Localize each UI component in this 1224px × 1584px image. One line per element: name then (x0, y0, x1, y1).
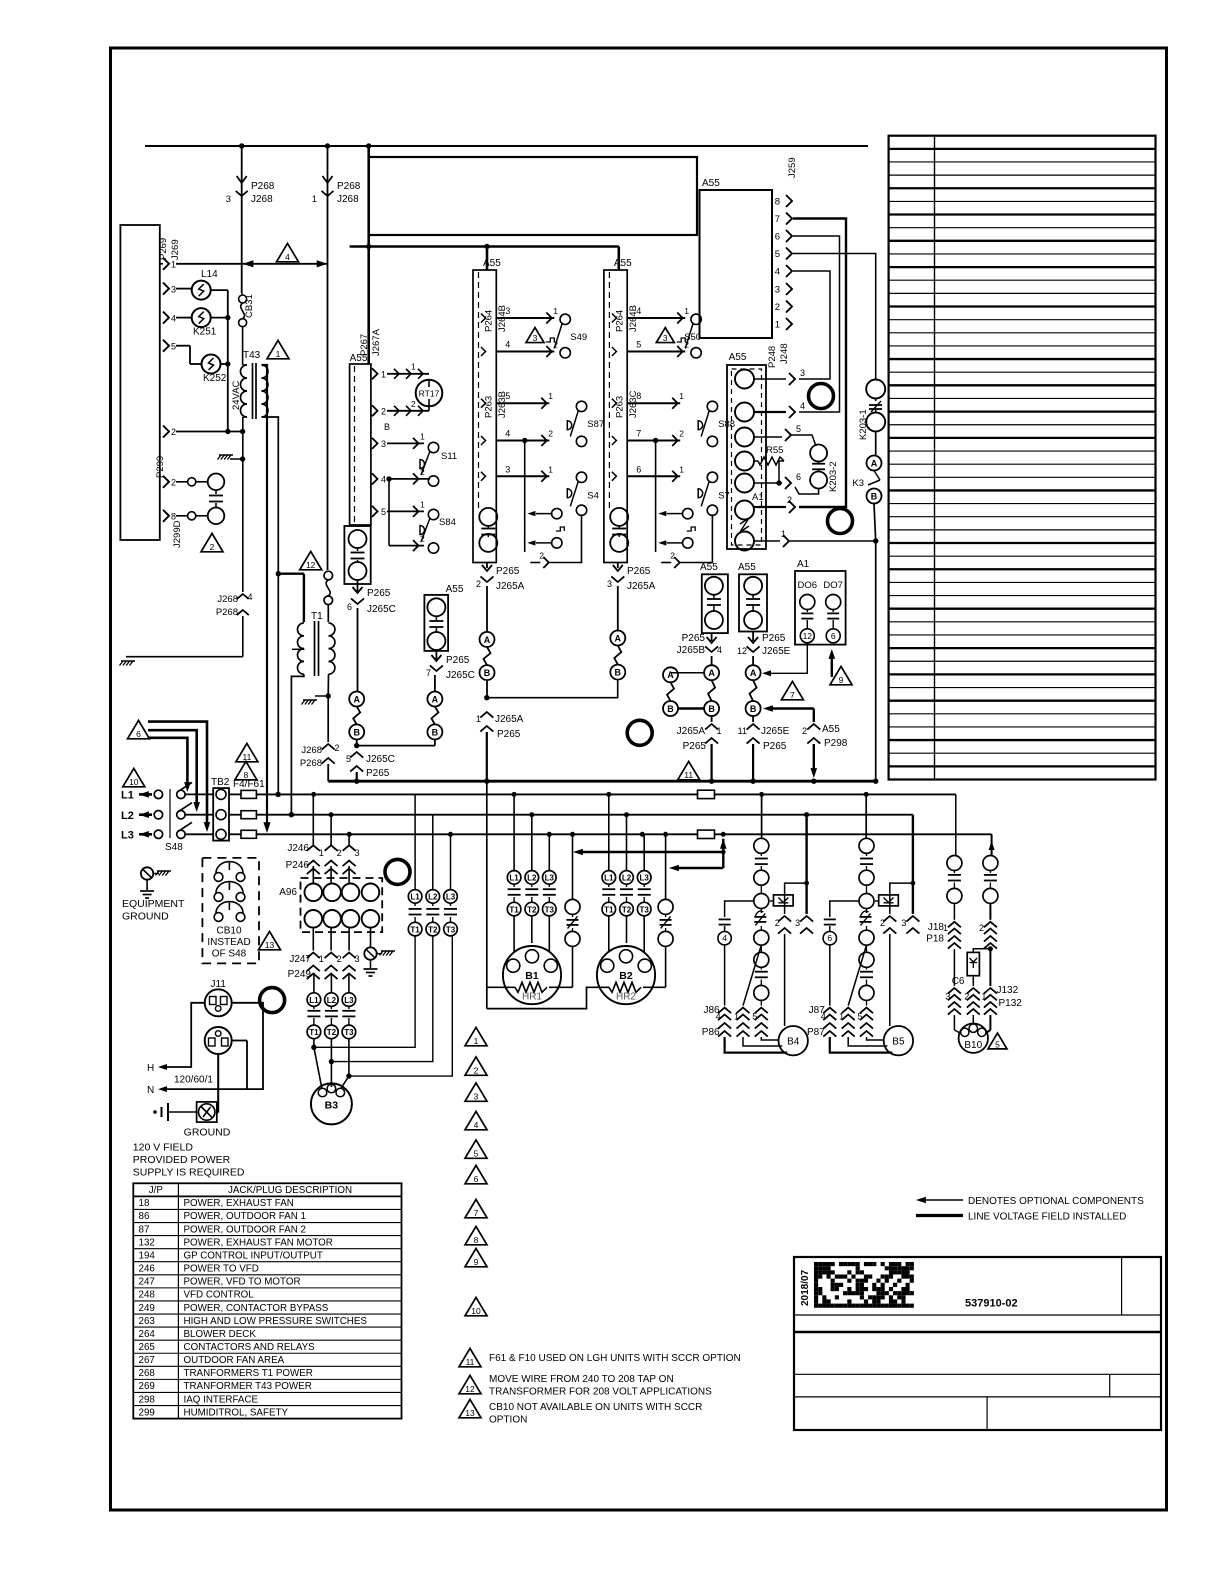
svg-text:3: 3 (795, 918, 800, 928)
svg-text:L1: L1 (121, 790, 134, 802)
svg-text:2: 2 (171, 478, 176, 488)
svg-text:A55: A55 (729, 352, 747, 363)
svg-text:T2: T2 (428, 925, 438, 934)
svg-text:4: 4 (505, 340, 510, 350)
wire loop marker right1 (809, 384, 834, 409)
note triangle 1 (267, 340, 289, 358)
svg-text:GROUND: GROUND (184, 1127, 231, 1139)
svg-text:J246: J246 (287, 843, 309, 854)
svg-text:B: B (484, 668, 491, 678)
switch S88 (612, 399, 617, 408)
svg-text:J265C: J265C (446, 670, 475, 681)
svg-text:A: A (353, 694, 360, 704)
svg-text:J268: J268 (251, 194, 273, 205)
reference table grid (889, 136, 1156, 780)
svg-text:T43: T43 (243, 350, 261, 361)
capacitor branch B2 (665, 834, 667, 899)
svg-text:J265C: J265C (367, 604, 396, 615)
diode module B5 (879, 895, 899, 906)
svg-text:J299D: J299D (172, 520, 183, 548)
field wire arrows L1 (139, 793, 152, 796)
branch circled 6 (830, 901, 859, 917)
svg-text:3: 3 (901, 918, 906, 928)
svg-text:11: 11 (684, 770, 693, 780)
svg-text:2: 2 (411, 399, 416, 409)
svg-text:T1: T1 (311, 611, 323, 622)
svg-text:BLOWER DECK: BLOWER DECK (184, 1329, 257, 1340)
svg-text:RT17: RT17 (419, 389, 440, 399)
node T1 ground (326, 693, 331, 698)
chassis ground symbol (168, 1111, 197, 1113)
wire loop marker A96 right (385, 859, 410, 884)
svg-text:HR2: HR2 (616, 992, 636, 1003)
svg-text:POWER, CONTACTOR BYPASS: POWER, CONTACTOR BYPASS (184, 1303, 329, 1314)
svg-text:B5: B5 (892, 1037, 905, 1048)
connector J248 pin 6 (754, 482, 782, 484)
note triangle 2 (201, 533, 223, 551)
svg-text:L1: L1 (309, 996, 319, 1005)
wire ground run (126, 656, 243, 658)
wire J246-1 from L1 (312, 794, 314, 845)
connector J265E pin 11 / P265 (747, 724, 760, 730)
svg-text:P265: P265 (682, 633, 706, 644)
svg-text:P18: P18 (926, 934, 944, 945)
note triangle 9 (830, 666, 852, 684)
svg-text:2: 2 (775, 918, 780, 928)
svg-text:P268: P268 (251, 181, 275, 192)
wire col1 feed (486, 247, 489, 271)
svg-text:2: 2 (684, 340, 689, 350)
svg-text:6: 6 (474, 1174, 479, 1184)
svg-text:L1: L1 (509, 874, 519, 883)
svg-text:S48: S48 (165, 842, 183, 853)
svg-text:11: 11 (738, 726, 747, 736)
note triangle 6 list (465, 1165, 487, 1183)
relay contacts bottom of board (610, 508, 628, 526)
svg-text:4: 4 (722, 933, 727, 943)
svg-text:3: 3 (533, 333, 538, 343)
svg-text:L3: L3 (446, 893, 456, 902)
node junction bus-P268-1 (325, 143, 330, 148)
wire branch to T1 (278, 573, 304, 575)
svg-text:1: 1 (476, 714, 481, 724)
connector P269 pin 3 (163, 283, 169, 295)
svg-text:B3: B3 (325, 1100, 339, 1112)
block empty component box top center (369, 157, 697, 235)
motor B2 fan (597, 946, 655, 1004)
connector J259 pin 3 (786, 283, 792, 295)
svg-text:3: 3 (945, 992, 950, 1002)
svg-text:2: 2 (171, 427, 176, 437)
svg-text:5: 5 (346, 754, 351, 764)
svg-text:A1: A1 (752, 492, 764, 503)
relay coil A/B (J265A-3) (617, 586, 619, 631)
diagonal to pin1 B5 (848, 945, 866, 1006)
svg-text:P265: P265 (683, 741, 707, 752)
connector J265A pin 1 / P265 (480, 712, 493, 718)
node power-line junction (289, 812, 294, 817)
svg-text:J269: J269 (170, 239, 181, 260)
node bus junction (750, 779, 755, 784)
diagonal to pin1 B4 (743, 945, 761, 1006)
svg-text:P265: P265 (446, 655, 470, 666)
contactor A96 contact top (323, 884, 341, 902)
connector J259 pin 6 (786, 230, 792, 242)
svg-text:A96: A96 (279, 887, 297, 898)
connector P269 pin 1 (163, 258, 169, 270)
node power-line junction (329, 812, 334, 817)
svg-text:J265E: J265E (761, 726, 790, 737)
wire J246-2 from L2 (330, 815, 332, 846)
switch K3 A/B (875, 432, 877, 456)
svg-text:B: B (432, 727, 439, 737)
svg-text:7: 7 (790, 690, 795, 700)
svg-text:2: 2 (420, 534, 425, 544)
svg-text:P246: P246 (286, 860, 310, 871)
svg-text:4: 4 (171, 313, 176, 323)
wire A55 feed vertical (367, 146, 370, 364)
svg-text:P264: P264 (615, 310, 626, 332)
breaker CB10 pole 1 (214, 873, 223, 882)
svg-text:J87: J87 (809, 1005, 826, 1016)
svg-text:5: 5 (857, 1012, 862, 1022)
svg-text:J248: J248 (779, 343, 790, 364)
svg-text:7: 7 (426, 668, 431, 678)
svg-text:T1: T1 (309, 1028, 319, 1037)
svg-text:3: 3 (226, 194, 231, 205)
svg-text:T1: T1 (604, 905, 614, 914)
svg-text:7: 7 (636, 429, 641, 439)
wire pin1 to dimension line (176, 263, 328, 265)
svg-text:T3: T3 (446, 925, 456, 934)
fuse on L3 (698, 830, 715, 838)
connector J248 pin 3 (754, 378, 786, 380)
svg-text:VFD CONTROL: VFD CONTROL (184, 1290, 255, 1301)
svg-text:5: 5 (381, 507, 386, 517)
svg-text:P87: P87 (807, 1027, 825, 1038)
svg-text:6: 6 (347, 602, 352, 612)
wire L1 run (256, 793, 955, 795)
note triangle 8 (235, 761, 257, 779)
barcode datamatrix (814, 1262, 818, 1266)
circuit breaker on P268-1 line (324, 571, 333, 580)
svg-text:10: 10 (471, 1306, 481, 1316)
relay K203-1 (866, 380, 885, 399)
svg-text:J265A: J265A (627, 581, 656, 592)
svg-text:2: 2 (979, 923, 984, 933)
svg-text:OUTDOOR FAN AREA: OUTDOOR FAN AREA (184, 1355, 285, 1366)
column B5 stack (859, 838, 874, 853)
connector J267A pin 1 (372, 368, 378, 379)
svg-text:1: 1 (312, 194, 317, 205)
svg-text:6: 6 (827, 933, 832, 943)
svg-text:J11: J11 (211, 979, 227, 990)
breaker CB10 option box (202, 858, 259, 964)
svg-text:A: A (750, 668, 757, 678)
node power-line junction (512, 792, 517, 797)
svg-text:264: 264 (139, 1329, 156, 1340)
svg-text:8: 8 (636, 391, 641, 401)
svg-text:3: 3 (505, 464, 510, 474)
svg-text:2: 2 (670, 551, 675, 561)
note 12 text (459, 1375, 481, 1393)
contact circle A55 input (735, 501, 754, 520)
contact circle A55 input (735, 474, 754, 493)
svg-text:247: 247 (139, 1277, 155, 1288)
svg-text:194: 194 (139, 1250, 156, 1261)
svg-text:2: 2 (476, 579, 481, 589)
svg-text:6: 6 (831, 631, 836, 641)
chevron taps 2,3 B4 (804, 881, 809, 886)
svg-text:263: 263 (139, 1316, 156, 1327)
svg-text:1: 1 (319, 848, 324, 858)
contactor A96 contact bottom (342, 910, 360, 928)
heater resistor HR2 (609, 982, 641, 992)
connector J268 pin 2 / P268 (322, 744, 335, 750)
wire T43 sec-left arrow to L3 (263, 822, 270, 833)
relay coil A/B (J265A-2) (486, 586, 488, 632)
svg-text:2: 2 (880, 918, 885, 928)
note triangle 7 (781, 681, 803, 699)
note triangle 2 list (465, 1057, 487, 1075)
ground rake near T43 (230, 458, 243, 460)
svg-text:3: 3 (663, 333, 668, 343)
hook contact B5 (861, 911, 869, 916)
svg-text:5: 5 (636, 340, 641, 350)
connector J86/P86 pins 4,1,5 (718, 1008, 731, 1014)
wire L2 run (256, 814, 913, 816)
hook contact B4 (755, 911, 763, 916)
note 13 text (459, 1399, 481, 1417)
svg-text:J265A: J265A (495, 714, 524, 725)
svg-text:S11: S11 (441, 451, 457, 462)
motor B10 exhaust fan (953, 1015, 955, 1030)
svg-text:1: 1 (420, 500, 425, 510)
circuit breaker CB31 (241, 293, 244, 295)
svg-text:2: 2 (420, 467, 425, 477)
svg-text:7: 7 (775, 214, 780, 225)
svg-text:A: A (667, 670, 674, 680)
breaker CB10 pole 2 (214, 893, 223, 902)
svg-text:3: 3 (505, 306, 510, 316)
svg-text:H: H (147, 1063, 154, 1074)
wire J259-5 route (793, 254, 876, 380)
contact circle A55 input (735, 532, 754, 551)
svg-text:12: 12 (306, 560, 316, 570)
svg-text:6: 6 (136, 729, 141, 739)
svg-text:P86: P86 (702, 1027, 720, 1038)
svg-text:9: 9 (474, 1257, 479, 1267)
svg-text:J265A: J265A (677, 726, 706, 737)
switch S49 (481, 314, 486, 323)
note triangle 13 (259, 931, 281, 949)
wire B link to col J265A-3 (487, 680, 618, 698)
contactor A96 contact bottom (323, 910, 341, 928)
svg-text:5: 5 (995, 1039, 1000, 1049)
svg-text:4: 4 (505, 429, 510, 439)
svg-text:INSTEAD: INSTEAD (207, 937, 250, 948)
svg-text:A: A (871, 458, 878, 468)
branch circled 4 (725, 901, 754, 917)
svg-text:A1: A1 (797, 559, 810, 570)
svg-text:POWER, OUTDOOR FAN 2: POWER, OUTDOOR FAN 2 (184, 1224, 306, 1235)
node power-line junction (448, 832, 453, 837)
note triangle 8 list (465, 1226, 487, 1244)
svg-text:CB10 NOT AVAILABLE ON UNITS WI: CB10 NOT AVAILABLE ON UNITS WITH SCCR (489, 1402, 702, 1413)
svg-text:S87: S87 (587, 419, 604, 430)
note triangle 1 list (465, 1027, 487, 1045)
svg-text:2: 2 (548, 429, 553, 439)
svg-text:J18: J18 (928, 922, 945, 933)
field wire arrows L2 (139, 813, 152, 816)
svg-text:120 V FIELD: 120 V FIELD (133, 1142, 194, 1154)
wires P87 to B5 (830, 1037, 893, 1053)
svg-text:8: 8 (244, 770, 249, 780)
wire T43 secondary right (262, 417, 279, 794)
svg-text:J265A: J265A (496, 581, 525, 592)
svg-text:P265: P265 (763, 741, 787, 752)
svg-text:4: 4 (381, 474, 386, 484)
wire loop marker J11 right (260, 988, 285, 1013)
svg-text:F61 & F10 USED ON LGH UNITS WI: F61 & F10 USED ON LGH UNITS WITH SCCR OP… (489, 1353, 741, 1364)
svg-text:B1: B1 (525, 970, 539, 982)
svg-text:J268: J268 (217, 594, 238, 605)
svg-text:P268: P268 (216, 607, 238, 618)
svg-text:L2: L2 (428, 893, 438, 902)
svg-text:2: 2 (787, 495, 792, 505)
connector P269 pin 5 (163, 340, 169, 352)
node power-line junction (804, 812, 809, 817)
wire right set L2 from L2 bus (432, 815, 434, 890)
svg-text:1: 1 (734, 1012, 739, 1022)
svg-text:P264: P264 (484, 310, 495, 332)
node power-line junction (547, 832, 552, 837)
connector P265/J265B pin 4 (711, 633, 713, 641)
wire J11 ground (217, 1054, 219, 1113)
svg-text:A55: A55 (702, 178, 720, 189)
connector P265/J265C pin 7 (435, 650, 437, 660)
switch S7 (612, 472, 617, 481)
svg-text:1: 1 (981, 992, 986, 1002)
node power-line junction (275, 792, 280, 797)
svg-text:L2: L2 (327, 996, 337, 1005)
svg-text:2: 2 (381, 406, 386, 416)
wires to B3 and bypass (313, 1039, 315, 1048)
svg-text:JACK/PLUG DESCRIPTION: JACK/PLUG DESCRIPTION (228, 1185, 352, 1196)
connector P299 pin 2 (163, 476, 169, 488)
svg-text:DO7: DO7 (823, 580, 843, 591)
svg-text:PROVIDED POWER: PROVIDED POWER (133, 1154, 231, 1166)
wire B4 main from L1 (761, 794, 763, 838)
node power-line junction (624, 812, 629, 817)
svg-text:B: B (750, 704, 757, 714)
svg-text:1: 1 (411, 362, 416, 372)
note triangle 7 list (465, 1199, 487, 1217)
svg-text:K3: K3 (852, 478, 864, 489)
legend line voltage (916, 1214, 963, 1217)
ground lug GROUND (197, 1102, 217, 1122)
wire B5 main from L1 (865, 794, 867, 838)
svg-text:132: 132 (139, 1237, 155, 1248)
svg-text:J268: J268 (337, 194, 359, 205)
svg-text:5: 5 (796, 424, 801, 434)
wire loop marker right2 (828, 509, 853, 534)
wire L14/K251/K252 common (211, 289, 228, 291)
connector P269 pin 2 (163, 426, 169, 438)
relay contacts bottom of board (479, 508, 497, 526)
svg-text:L3: L3 (545, 874, 555, 883)
svg-text:LINE VOLTAGE FIELD INSTALLED: LINE VOLTAGE FIELD INSTALLED (968, 1212, 1126, 1223)
node bus junction (484, 779, 489, 784)
svg-text:OF S48: OF S48 (212, 949, 247, 960)
svg-text:8: 8 (775, 197, 780, 208)
svg-text:L1: L1 (604, 874, 614, 883)
ground rake T1 (315, 695, 328, 697)
jack/plug description table (133, 1183, 401, 1418)
svg-text:T2: T2 (327, 1028, 337, 1037)
svg-text:2: 2 (964, 992, 969, 1002)
motor B5 (884, 1026, 913, 1055)
wire col2 feed (617, 247, 620, 271)
node power-line junction (640, 832, 645, 837)
connector P299 pin 8 (163, 510, 169, 522)
svg-text:L2: L2 (121, 810, 134, 822)
sensor RT17 (387, 373, 429, 375)
wire heavy bus second (350, 245, 619, 248)
svg-text:268: 268 (139, 1368, 156, 1379)
diode module B4 (774, 895, 794, 906)
relay coil A/B (J265C-7) (434, 675, 436, 692)
note triangle 3 list (465, 1083, 487, 1101)
svg-text:B: B (667, 704, 674, 714)
svg-text:A55: A55 (738, 562, 756, 573)
svg-text:K203-2: K203-2 (828, 461, 839, 492)
node bus junction (709, 779, 714, 784)
wire HR1 right lead (549, 986, 573, 988)
svg-text:L2: L2 (622, 874, 632, 883)
svg-text:MOVE WIRE FROM 240 TO 208 TAP: MOVE WIRE FROM 240 TO 208 TAP ON (489, 1374, 674, 1385)
exhaust fan J18 column 1 (947, 856, 962, 871)
note 11 text (459, 1348, 481, 1366)
terminals L1L2L3/T1T2T3 for B2 (608, 794, 610, 870)
svg-text:A: A (432, 694, 439, 704)
svg-text:CB10: CB10 (216, 926, 241, 937)
svg-text:120/60/1: 120/60/1 (174, 1075, 213, 1086)
svg-text:B: B (615, 668, 622, 678)
svg-text:11: 11 (242, 752, 251, 762)
connector J268 pin 4 / P268 (237, 594, 249, 599)
node power-line junction (721, 832, 726, 837)
svg-text:CONTACTORS AND RELAYS: CONTACTORS AND RELAYS (184, 1342, 316, 1353)
contact circle A55 input (735, 452, 754, 471)
svg-text:1: 1 (420, 432, 425, 442)
svg-text:P265: P265 (366, 768, 390, 779)
svg-text:18: 18 (139, 1198, 150, 1209)
node bus junction (873, 779, 878, 784)
svg-text:T3: T3 (344, 1028, 354, 1037)
svg-text:B10: B10 (964, 1040, 982, 1051)
title block frame (794, 1257, 1161, 1430)
switch S11 (387, 442, 424, 444)
svg-text:6: 6 (775, 232, 780, 243)
svg-text:J265E: J265E (762, 646, 791, 657)
svg-text:P267: P267 (359, 334, 370, 356)
svg-text:1: 1 (684, 306, 689, 316)
svg-text:1: 1 (548, 464, 553, 474)
wire J246-3 from L3 (348, 834, 350, 845)
svg-text:J265B: J265B (677, 645, 706, 656)
svg-text:6: 6 (796, 472, 801, 482)
